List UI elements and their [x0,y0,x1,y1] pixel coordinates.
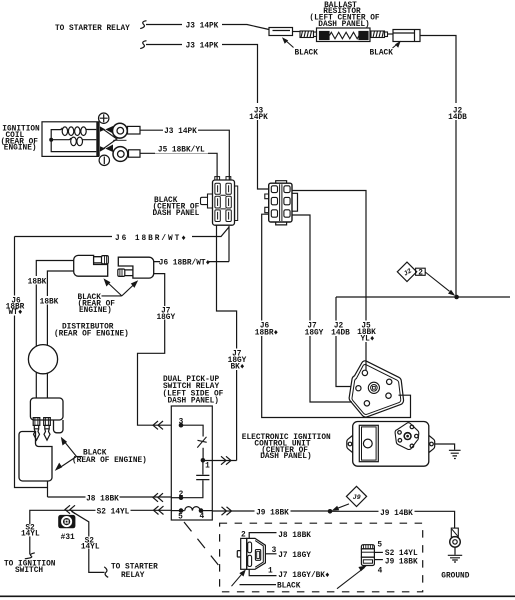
relay switch contact (normally open) [197,437,206,448]
label J7 18GY column [303,321,326,337]
svg-text:(REAR OF ENGINE): (REAR OF ENGINE) [72,457,147,465]
label J9 18BK [255,507,291,516]
label J2 14DB column [329,321,352,337]
svg-text:J9 18BK: J9 18BK [385,559,418,567]
svg-text:ENGINE): ENGINE) [79,307,112,315]
svg-text:BLACK: BLACK [370,50,394,58]
svg-text:TO STARTER RELAY: TO STARTER RELAY [55,25,130,33]
ballast left connector terminal [269,28,293,36]
chevron connector on pin1 wire [221,456,231,464]
relay pin5 wire to box edge [171,510,181,512]
detail pin 1 leader to J7 18GY/BK [249,569,276,575]
svg-text:J7 18GY/BK♦︎: J7 18GY/BK♦︎ [278,572,330,580]
long feed wire at J2 splice [336,296,510,298]
ECU left module block [359,425,378,461]
wire J9 18BK relay pin4 to splice [212,510,330,512]
relay internal wire pin3 to switch [181,425,203,436]
arrow from callout to splice [425,272,449,291]
pigtail pin sockets [362,370,367,375]
distributor cap circle [28,345,57,374]
wire 18BK pickup lead 2 [47,271,73,346]
crimp splice right (hatched) [371,31,388,38]
svg-text:ENGINE): ENGINE) [4,145,37,153]
svg-text:J3 14PK: J3 14PK [186,22,219,30]
relay pin 1 node [201,458,206,463]
label J2 14DB right feed wire [447,103,468,120]
connector C1 (BLACK, center of dash panel) body [201,177,238,226]
chevron on S2 wire left [65,505,75,513]
dashed leader from relay to detail box [184,522,220,567]
svg-text:18GY: 18GY [305,329,324,337]
relay internal wire switch to pin 1 [202,448,204,461]
wire J3 14PK to starter relay (top) [146,25,269,30]
connector C2 (6-cavity) body [265,181,298,225]
coil terminal bar (thick right edge) [96,122,99,157]
wire J7 18GY connector C2 to ECU pigtail [292,215,352,402]
label S2 14YL [96,506,131,515]
coil minus terminal symbol [99,155,109,165]
coil plus terminal symbol [99,113,109,123]
resistor end block right [359,32,368,40]
svg-text:#31: #31 [61,534,75,542]
label J3 14PK wire A [182,20,222,29]
wire J5 18BK/YL* connector C2 to ECU pigtail top [292,191,366,371]
coil primary winding (top) [51,128,62,140]
distributor base connector (BLACK rear of engine) [19,432,52,482]
svg-text:J6 18BR/WT♦︎: J6 18BR/WT♦︎ [115,235,188,243]
ring terminal to coil + [113,123,128,138]
label 18BK wire 1 [28,276,46,285]
label J5 18BK YL* column [356,321,379,343]
label J6 18BR/WT* wide [112,232,192,242]
ground ring terminal [450,537,461,548]
wire S2 14YL branch to starter relay [72,511,105,572]
wire J3 14PK to starter relay (second) [146,45,269,190]
break symbol on second starter wire [140,41,146,49]
svg-text:BK♦︎: BK♦︎ [230,363,244,371]
wire J3 14PK from coil + to connector [140,130,229,180]
label J8 18BK [86,493,120,502]
svg-text:BLACK: BLACK [277,582,301,590]
wire J6 18BR* connector C2 to ECU pigtail [262,214,411,417]
svg-text:14DB: 14DB [448,114,467,122]
wire resistor to ballast right connector [388,33,394,35]
svg-text:(REAR OF ENGINE): (REAR OF ENGINE) [54,331,129,339]
connector C2 contact cavities [271,186,290,217]
arrow to detail socket [337,568,365,589]
svg-text:14YL: 14YL [81,544,100,552]
dual pick-up switch relay box [171,406,212,520]
spark plug boot terminal 2 [44,418,51,441]
svg-text:YL♦︎: YL♦︎ [360,335,374,343]
coil internal node (junction dot) [49,138,53,142]
label S2 14YL starter branch [80,537,100,550]
svg-text:WT♦︎: WT♦︎ [8,309,22,317]
wire J9 14BK to ground [330,511,455,528]
svg-text:2: 2 [241,532,246,540]
resistor end block left [320,32,330,40]
svg-text:18BK: 18BK [28,278,47,286]
pickup coil connector (right half) [118,257,154,278]
svg-text:4: 4 [378,567,383,575]
crimp splice left (hatched) [300,31,317,38]
ballast resistor R1 body [317,28,371,42]
pickup coil connector (left half) [74,255,109,276]
splice junction dot [454,295,459,300]
earth ground symbol [448,555,462,562]
ECU pentagon socket [395,423,419,450]
wire J2 14DB down to ECU pigtail [336,297,351,387]
relay pin 5 node [179,508,184,513]
svg-text:18GY: 18GY [156,314,175,322]
coil secondary return (bottom lead) [51,140,96,152]
svg-text:SWITCH: SWITCH [15,567,43,575]
svg-text:GROUND: GROUND [441,572,469,580]
connector C2 center divider [280,184,282,221]
relay capacitor C1 [202,460,204,474]
wire ballast left connector to resistor [293,31,301,33]
svg-text:14PK: 14PK [249,114,268,122]
svg-text:2: 2 [179,491,184,499]
pigtail center tower [368,382,379,393]
svg-text:J8 18BK: J8 18BK [278,532,311,540]
wire J7 18GY pickup to relay pin 3 [138,274,172,426]
arrows to pickup BLACK (rear of engine) label [107,282,136,296]
chevron on pin4 wire [222,507,232,515]
distributor base pin down to J8 wire [47,481,49,497]
spark plug boot terminal 1 [33,418,40,441]
wires circle to housing [36,372,47,398]
detail socket pin 4 leader [374,559,383,561]
ECU right mounting ear [429,435,435,452]
resistor zigzag element [330,32,360,39]
svg-text:DASH PANEL): DASH PANEL) [260,453,311,461]
svg-text:3: 3 [179,418,184,426]
coil tower wedge (to ring terminals) [100,126,113,134]
coil secondary winding (bottom) [51,138,71,140]
detail view dashed box [220,523,423,592]
relay pin1 wire out to right [203,460,237,462]
svg-text:18BR♦︎: 18BR♦︎ [255,329,279,337]
svg-text:J9: J9 [353,494,361,501]
ECU ground wire [435,444,455,450]
wire 18BK pickup lead 1 [36,261,73,347]
arrow to right BLACK label [393,43,399,48]
splice node J9 [328,509,333,514]
ECU pigtail connector (pentagon) outer shell [349,361,403,417]
svg-text:J3 14PK: J3 14PK [186,42,219,50]
svg-text:DASH PANEL: DASH PANEL [153,210,200,218]
relay pin 3 node [179,423,184,428]
label J7 18GY pickup wire [156,306,176,320]
label J7 18GY BK* column [226,349,247,371]
arrow from J9 callout to splice [337,504,350,509]
break symbol on top starter wire [140,21,146,29]
label S2 14YL ignition branch [22,524,40,536]
arrow to left BLACK label [285,40,294,48]
svg-text:J5 18BK/YL: J5 18BK/YL [158,146,205,154]
wire J8 18BK distributor to relay pin 2 [48,496,172,498]
svg-text:J9 18BK: J9 18BK [256,509,289,517]
wire J5 18BK/YL from coil - to connector [140,153,217,180]
svg-text:TO STARTER: TO STARTER [111,563,158,571]
label J6 18BR* column [254,321,279,337]
distributor housing [30,398,63,420]
svg-text:J6 18BR/WT♦︎: J6 18BR/WT♦︎ [159,260,211,268]
svg-text:BLACK: BLACK [295,50,319,58]
ECU chassis ground symbol [449,450,461,458]
callout box 2 [416,268,426,275]
detail connector (relay face) [237,538,265,569]
relay pin 4 node [199,508,204,513]
ring terminal to coil - [113,147,128,162]
svg-text:J7 18GY: J7 18GY [278,552,311,560]
label J9 14BK [379,508,415,517]
svg-text:14YL: 14YL [21,531,40,539]
svg-text:1: 1 [268,568,273,576]
svg-text:J9 14BK: J9 14BK [380,510,413,518]
label J3 14PK wire B [182,40,222,49]
svg-text:5: 5 [377,542,382,550]
chevron on S2 wire near relay [154,506,164,514]
svg-text:RELAY: RELAY [121,572,145,580]
relay pin 2 node [179,495,184,500]
svg-text:S2 14YL: S2 14YL [385,550,418,558]
connector C1 internal contact slots [215,183,231,221]
detail socket (S2/J9) [361,545,374,566]
break symbol to starter relay [104,567,108,578]
wire S2 14YL ignition switch feed [30,510,172,554]
svg-text:18BK: 18BK [40,298,59,306]
connector C1 left pin wire J7 18GY/BK to relay pin 1 [217,225,237,461]
detail pin 2 leader to J8 18BK [249,533,276,539]
connector C1 right pin down to pickup J6 wire [228,226,230,262]
page border bottom [0,595,515,597]
ECU left mounting ear [347,435,353,452]
label J5 18BK/YL coil wire [155,144,208,154]
detail pin 3 leader to J7 18GY [265,553,276,555]
svg-text:3: 3 [272,547,277,555]
callout diamond J9 [346,486,366,506]
svg-text:4: 4 [199,513,204,521]
svg-text:5: 5 [178,513,183,521]
svg-text:DASH PANEL): DASH PANEL) [318,21,369,29]
svg-text:DASH PANEL): DASH PANEL) [168,397,219,405]
chevron connector on J8 wire [153,493,163,502]
break symbol to ignition switch [25,553,35,559]
label 18BK wire 2 [40,296,58,305]
svg-text:J3 14PK: J3 14PK [164,128,197,136]
svg-text:2: 2 [418,270,423,278]
svg-text:S2 14YL: S2 14YL [97,508,130,516]
ground icon #31 [58,515,75,528]
ballast right connector terminal [393,30,420,42]
relay coil winding [181,507,201,511]
ground strap fusible link [451,528,458,537]
arrows to distributor BLACK label [59,441,77,469]
label J6 18BR/WT* second [160,257,209,266]
svg-text:14DB: 14DB [331,329,350,337]
label J6 18BR WT* left bus [6,296,24,315]
label J3 14PK vertical wire [248,103,269,120]
wire left bus J6 18BR/WT to distributor base [15,237,48,488]
callout diamond J2 [397,262,416,281]
svg-text:1: 1 [205,462,210,470]
ignition coil body box [42,122,99,157]
label J3 14PK coil wire [163,126,198,136]
wire J2 14DB from ballast right connector down right side [420,36,456,297]
ECU body [353,422,429,467]
relay pin4 wire out right [201,510,212,512]
wire J6 18BR/WT bus to connector C1 pin [15,227,230,237]
detail socket pin 5 leader [374,551,383,553]
detail BLACK leader and arrow [240,584,277,586]
relay pin2 wire to box edge [171,497,181,499]
svg-text:J8 18BK: J8 18BK [86,495,119,503]
chevron connector on relay pin3 wire [153,421,163,429]
wire J6 18BR/WT pickup to connector C1 [154,261,229,263]
